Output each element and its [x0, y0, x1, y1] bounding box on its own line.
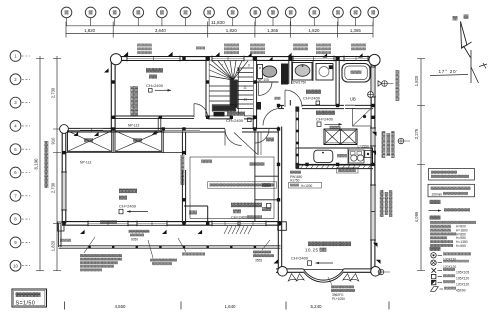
- window UB top: [344, 57, 368, 61]
- wall B wing left outer: [61, 129, 63, 223]
- label room B: [119, 189, 137, 194]
- svg-text:2,730: 2,730: [51, 182, 56, 193]
- legend row: [430, 229, 451, 232]
- balcony hatch: [224, 226, 228, 234]
- grid bubble col 7: [204, 7, 215, 18]
- post wedge mark: [378, 81, 382, 86]
- grid bubble col 13: [333, 7, 344, 18]
- bottom window note: [331, 285, 354, 288]
- svg-text:CH=2400: CH=2400: [303, 96, 321, 101]
- oshiire strip wall r5: [255, 175, 279, 177]
- grid bubble col 15: [368, 7, 379, 18]
- wall post: [206, 222, 209, 225]
- wall washroom-UB: [335, 57, 337, 106]
- wall post: [371, 57, 374, 60]
- svg-text:5,240: 5,240: [311, 304, 323, 309]
- wall rooms bottom: [62, 221, 281, 223]
- dim tick: [207, 22, 209, 38]
- label room C: [231, 203, 262, 208]
- wall post: [162, 127, 165, 130]
- svg-text:100mm: 100mm: [432, 192, 443, 196]
- amido note: [196, 47, 205, 50]
- wall post: [182, 198, 185, 201]
- wall stair right: [252, 57, 254, 129]
- wall post: [277, 127, 280, 130]
- window B left: [62, 172, 66, 210]
- svg-text:CH=2400: CH=2400: [226, 118, 244, 123]
- wall post: [253, 116, 256, 119]
- corner column top-right: [369, 54, 380, 65]
- door UB: [345, 104, 355, 106]
- wall post: [182, 127, 185, 130]
- window B bottom 1: [88, 222, 128, 226]
- wall post: [206, 116, 209, 119]
- svg-text:L=2550: L=2550: [358, 145, 370, 149]
- corner column top-left: [110, 54, 121, 65]
- bathtub label: [351, 71, 362, 74]
- kitchen fridge box: [353, 109, 372, 127]
- label oshiire strip: [262, 183, 271, 187]
- left dim tick: [53, 270, 61, 272]
- svg-text:17° 20′: 17° 20′: [439, 69, 458, 74]
- wall post: [182, 222, 185, 225]
- grid bubble row 6: [10, 167, 21, 178]
- vent flag: [162, 230, 167, 234]
- label konro box: [337, 168, 359, 173]
- bow window arc: [304, 269, 344, 280]
- grid bubble col 3: [109, 7, 120, 18]
- wall post: [112, 80, 115, 83]
- corner column B-wing: [60, 125, 69, 134]
- legend row: [430, 221, 476, 224]
- label room A: [146, 68, 163, 73]
- wall balcony outer: [59, 245, 281, 247]
- label washroom: [306, 90, 321, 94]
- wall post: [135, 57, 138, 60]
- grid bubble col 1: [61, 7, 72, 18]
- right dim tick: [417, 58, 425, 60]
- grid bubble col 4: [133, 7, 144, 18]
- toilet duct dark: [281, 64, 288, 85]
- wall post: [112, 116, 115, 119]
- stair winder fan: [212, 61, 233, 80]
- wall post: [371, 80, 374, 83]
- terrace door note: [253, 251, 271, 254]
- svg-text:1,820: 1,820: [51, 240, 56, 251]
- left dim tick: [53, 152, 61, 154]
- note box 1: [429, 169, 475, 181]
- svg-text:120X120: 120X120: [456, 283, 469, 287]
- right dim line: [420, 59, 422, 271]
- stair center wall: [231, 81, 237, 108]
- balcony spec note: [80, 254, 122, 257]
- svg-text:2,275: 2,275: [414, 128, 419, 139]
- svg-text:1,820: 1,820: [226, 28, 238, 33]
- corridor jamb: [157, 117, 159, 130]
- label C small row: [247, 215, 262, 218]
- svg-text:4,550: 4,550: [115, 304, 127, 309]
- svg-text:9: 9: [248, 64, 250, 68]
- vent flag: [287, 53, 292, 57]
- svg-text:PL+1050: PL+1050: [332, 297, 345, 301]
- wall post: [277, 163, 280, 166]
- right rotated note a: [396, 70, 400, 101]
- terrace leader: [262, 240, 270, 250]
- kitchen island: [324, 129, 357, 145]
- through post symbol: [382, 81, 388, 87]
- legend header 1: [430, 200, 441, 204]
- wall post: [206, 80, 209, 83]
- left rotated window note: [44, 141, 48, 188]
- vent flag: [323, 53, 328, 57]
- vent flag: [215, 52, 220, 56]
- wall top outer: [113, 56, 373, 58]
- washbasin: [293, 63, 313, 81]
- note box 2: [428, 184, 475, 197]
- balcony spec leader: [84, 237, 95, 253]
- wall washroom bottom: [279, 104, 285, 106]
- legend row: [430, 244, 453, 247]
- svg-text:CH=2400: CH=2400: [119, 204, 137, 209]
- vent flag: [372, 132, 377, 136]
- wall post: [112, 57, 115, 60]
- grid bubble col 14: [350, 7, 361, 18]
- stair treads: [209, 60, 253, 115]
- wall balcony left: [58, 223, 60, 247]
- wall stair left: [205, 57, 207, 118]
- grid bubble row 7: [10, 190, 21, 201]
- label oshiire C: [266, 138, 274, 142]
- right rotated note b: [382, 131, 386, 158]
- wall post: [230, 57, 233, 60]
- svg-text:CH=2400: CH=2400: [231, 216, 247, 220]
- window kitchen right: [371, 128, 375, 146]
- wall closet bottom: [66, 152, 184, 154]
- svg-text:H1750: H1750: [290, 179, 300, 183]
- svg-text:3,640: 3,640: [155, 28, 167, 33]
- window stair top: [212, 57, 244, 61]
- bottom dim tick: [180, 302, 182, 310]
- wall post: [371, 163, 374, 166]
- vent flag: [247, 53, 252, 57]
- vent flag: [94, 132, 99, 136]
- legend row: [430, 225, 451, 228]
- wall post: [62, 127, 65, 130]
- title block box: [12, 289, 47, 307]
- wall post: [289, 57, 292, 60]
- grid bubble col 12: [309, 7, 320, 18]
- vent flag: [198, 230, 203, 234]
- svg-text:CH=2400: CH=2400: [291, 256, 309, 261]
- label YR9: [201, 160, 212, 164]
- svg-text:11: 11: [244, 86, 248, 90]
- mono-ire wall: [184, 205, 208, 207]
- left dim tick: [53, 58, 61, 60]
- door kitchen entry: [263, 109, 280, 126]
- wall post: [182, 151, 185, 154]
- wall stair bottom: [208, 115, 232, 117]
- vent flag: [80, 230, 85, 234]
- wall post: [159, 57, 162, 60]
- wall post: [230, 222, 233, 225]
- R3 opening band a: [80, 128, 103, 132]
- dim tick: [289, 22, 291, 38]
- wall living bottom left seg: [276, 268, 304, 270]
- wall B-C divider: [181, 131, 183, 155]
- svg-text:105X105: 105X105: [456, 270, 469, 274]
- wall post: [311, 57, 314, 60]
- bottom dim tick: [64, 302, 66, 310]
- window annotation: [293, 44, 308, 47]
- wall post: [336, 104, 339, 107]
- svg-text:NP-113: NP-113: [80, 161, 91, 165]
- svg-text:NP-105: NP-105: [258, 78, 269, 82]
- kitchen outlet box: [365, 151, 372, 158]
- svg-text:1,640: 1,640: [225, 304, 237, 309]
- svg-text:2,730: 2,730: [51, 87, 56, 98]
- left dim line segments: [56, 56, 58, 271]
- monohoshi note: [182, 253, 205, 256]
- bearing lines: [430, 75, 468, 76]
- left dim tick: [53, 222, 61, 224]
- dim tick: [372, 22, 374, 38]
- wall post: [62, 151, 65, 154]
- vent flag: [268, 57, 273, 61]
- svg-text:6050: 6050: [131, 238, 138, 242]
- mikiri note: [60, 239, 71, 242]
- vent flag: [124, 52, 129, 56]
- vent flag: [371, 151, 376, 155]
- wall post: [371, 116, 374, 119]
- grid bubble col 8: [227, 7, 238, 18]
- legend sym row 3: [432, 268, 437, 273]
- svg-text:1,820: 1,820: [309, 28, 321, 33]
- svg-text:7: 7: [222, 64, 224, 68]
- kitchen stove: [349, 150, 364, 163]
- wall living bottom right seg: [344, 268, 374, 270]
- wall post: [305, 163, 308, 166]
- bottom dim tick: [388, 302, 390, 310]
- door hall-A: [194, 104, 208, 118]
- door hall-C: [225, 129, 242, 146]
- wall post: [206, 57, 209, 60]
- svg-text:S=1/50: S=1/50: [16, 301, 36, 307]
- balcony screen note: [150, 259, 177, 262]
- balcony rail posts: [88, 246, 90, 248]
- grid bubble col 10: [268, 7, 279, 18]
- door corridor-C: [255, 129, 269, 143]
- wall living left: [277, 106, 279, 109]
- north arrow labels: [453, 16, 458, 20]
- bathtub: [342, 64, 370, 83]
- wall post: [371, 198, 374, 201]
- vent flag: [74, 132, 79, 136]
- oshiire strip wall r6: [255, 199, 279, 201]
- bow scallops left: [288, 274, 296, 281]
- closet label a: [84, 138, 93, 142]
- svg-text:4,095: 4,095: [414, 211, 419, 222]
- grid bubble col 5: [157, 7, 168, 18]
- vent flag: [104, 68, 109, 72]
- svg-text:10: 10: [13, 263, 18, 268]
- balcony screen leader: [148, 240, 153, 258]
- window living right: [371, 185, 375, 240]
- legend sym row 5: [432, 280, 436, 284]
- svg-text:CH=2400: CH=2400: [316, 117, 334, 122]
- window washroom top: [293, 57, 334, 61]
- window annotation: [351, 44, 366, 47]
- label kitchen: [316, 111, 335, 115]
- window C bottom: [212, 222, 238, 226]
- label room C note box: [208, 182, 277, 188]
- wall post: [253, 57, 256, 60]
- monohoshi leader: [178, 238, 186, 252]
- dim tick: [337, 22, 339, 38]
- balcony left corner box: [58, 222, 65, 231]
- oshiire strip left wall: [254, 129, 256, 223]
- label tile: [337, 154, 347, 157]
- wall B wing top: [62, 127, 225, 129]
- wall post: [278, 222, 281, 225]
- label shikii-up B: [100, 220, 117, 224]
- corridor tiny mark: [275, 97, 281, 100]
- bottom note leader: [328, 277, 332, 285]
- svg-text:10.25: 10.25: [305, 248, 319, 253]
- wall post: [253, 127, 256, 130]
- grid bubble row 1: [10, 51, 21, 62]
- legend row: [430, 240, 453, 243]
- wall post: [159, 116, 162, 119]
- bow scallops right: [343, 274, 351, 281]
- svg-text:H=950: H=950: [456, 244, 466, 248]
- kitchen partition: [295, 107, 297, 169]
- closet divider v2: [162, 131, 164, 153]
- wall post: [253, 80, 256, 83]
- legend sym row 4: [432, 274, 436, 278]
- window UB right: [371, 67, 375, 97]
- left dim line overall: [39, 56, 41, 271]
- svg-text:DW1750: DW1750: [293, 81, 306, 85]
- closet X right: [115, 131, 162, 152]
- svg-text:H=1000: H=1000: [301, 184, 312, 188]
- grid bubble col 11: [285, 7, 296, 18]
- label mono-ire: [189, 211, 197, 215]
- bath vent fan: [368, 92, 374, 98]
- vent flag: [168, 52, 173, 56]
- legend sym row 2: [431, 260, 436, 265]
- svg-text:11,830: 11,830: [211, 20, 225, 25]
- svg-text:NP-113: NP-113: [128, 123, 139, 127]
- vent flag: [274, 259, 279, 263]
- svg-text:1,820: 1,820: [84, 28, 96, 33]
- dim tick: [112, 22, 114, 38]
- legend sym row 1: [431, 253, 436, 258]
- C wall rotated note: [181, 155, 185, 185]
- svg-text:1,365: 1,365: [350, 28, 362, 33]
- R3 opening band b: [165, 128, 200, 132]
- grid bubble col 6: [180, 7, 191, 18]
- wall toilet bottom: [255, 81, 279, 83]
- window A top: [127, 57, 180, 61]
- legend row: [430, 236, 447, 239]
- wall post: [336, 57, 339, 60]
- legend header 3: [430, 247, 441, 251]
- grid bubble row 9: [10, 237, 21, 248]
- wall right outer: [370, 57, 372, 271]
- svg-text:UB: UB: [350, 97, 356, 102]
- svg-text:13: 13: [244, 98, 248, 102]
- closet X left: [68, 131, 112, 152]
- balcony corner box: [278, 222, 287, 231]
- segment dim line top: [66, 33, 373, 35]
- wall post: [182, 57, 185, 60]
- wall post: [371, 104, 374, 107]
- through post symbol: [378, 269, 384, 275]
- wall post: [336, 163, 339, 166]
- toilet: [257, 65, 262, 79]
- right dim tick: [417, 270, 425, 272]
- vent flag: [373, 243, 378, 247]
- svg-text:45X90: 45X90: [456, 289, 466, 293]
- wall post: [159, 222, 162, 225]
- wall toilet-washroom divider: [288, 57, 290, 84]
- window annotation: [250, 44, 265, 47]
- svg-text:910: 910: [51, 137, 56, 145]
- label hall: [227, 112, 245, 116]
- closet divider v1: [112, 131, 114, 153]
- kitchen counter: [296, 148, 373, 164]
- dim tick: [254, 22, 256, 38]
- north arrow: [461, 22, 468, 48]
- wall post: [62, 222, 65, 225]
- through post symbol: [398, 138, 404, 144]
- label sagari-kabe: [290, 171, 301, 174]
- wall C top: [242, 127, 279, 129]
- island note: [330, 126, 341, 129]
- svg-text:1,820: 1,820: [414, 75, 419, 86]
- svg-text:105X120: 105X120: [456, 277, 469, 281]
- svg-text:8,190: 8,190: [34, 158, 39, 170]
- grid bubble row 4: [10, 121, 21, 132]
- wall post: [253, 222, 256, 225]
- closet label b: [133, 138, 142, 142]
- grid bubble row 2: [10, 74, 21, 85]
- corner column living-br: [371, 267, 381, 277]
- window annotation: [224, 44, 239, 47]
- wall post: [112, 222, 115, 225]
- grid bubble col 9: [250, 7, 261, 18]
- door toilet: [259, 82, 273, 96]
- vent flag: [358, 53, 363, 57]
- svg-text:1,365: 1,365: [267, 28, 279, 33]
- wall A left: [110, 57, 112, 132]
- grid bubble row 5: [10, 144, 21, 155]
- label living: [308, 242, 351, 247]
- legend sym row 6: [431, 287, 439, 292]
- wall post: [62, 175, 65, 178]
- legend row: [430, 232, 456, 235]
- window B bottom 2: [137, 222, 167, 226]
- right dim tick: [417, 105, 425, 107]
- tatami border room C: [190, 157, 274, 219]
- washer pan: [316, 64, 333, 81]
- window annotation: [137, 44, 152, 47]
- svg-text:CH=2400: CH=2400: [146, 83, 164, 88]
- wall post: [112, 127, 115, 130]
- legend arrow row: [429, 210, 442, 212]
- stair wall dark post: [256, 102, 261, 110]
- grid bubble col 2: [85, 7, 96, 18]
